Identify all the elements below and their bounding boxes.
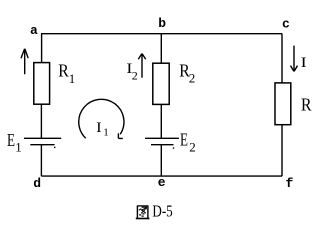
current arrow left branch <box>21 49 28 75</box>
wire b to R2 <box>160 34 162 63</box>
battery E1 <box>24 138 61 144</box>
wire bottom d-e-f <box>41 175 282 177</box>
svg-text:f: f <box>286 176 294 191</box>
resistor R2 <box>153 63 169 104</box>
wire R to f <box>281 125 283 176</box>
svg-text:E: E <box>7 130 15 150</box>
wire a to R1 <box>41 34 43 63</box>
svg-text:E: E <box>180 130 188 150</box>
wire c to R <box>281 34 283 83</box>
svg-text:2: 2 <box>132 68 138 82</box>
current arrow I2 <box>138 54 145 78</box>
svg-text:1: 1 <box>69 71 76 86</box>
wire E2 to e <box>160 145 162 177</box>
stray dot near E1 <box>54 146 55 148</box>
svg-text:1: 1 <box>15 140 22 155</box>
wire R2 to E2 <box>160 104 162 138</box>
svg-text:c: c <box>282 17 290 32</box>
svg-text:2: 2 <box>189 71 196 86</box>
svg-text:I: I <box>301 55 307 71</box>
svg-text:1: 1 <box>103 127 109 139</box>
resistor R1 <box>34 63 50 105</box>
svg-text:a: a <box>30 23 38 38</box>
svg-text:e: e <box>158 175 166 190</box>
wire R1 to E1 <box>40 104 42 138</box>
current arrow I <box>291 46 298 72</box>
svg-text:b: b <box>158 16 166 31</box>
battery E2 <box>145 138 179 144</box>
stray dot near E2 <box>173 147 174 149</box>
loop arrowhead <box>118 133 122 138</box>
wire E1 to d <box>40 145 42 177</box>
svg-text:R: R <box>301 95 312 115</box>
mesh current loop I1 <box>79 99 124 138</box>
svg-text:2: 2 <box>189 139 196 154</box>
svg-text:d: d <box>33 176 41 191</box>
wire top a-b-c <box>41 33 282 35</box>
caption glyph tu (figure) <box>137 206 148 219</box>
svg-text:D-5: D-5 <box>152 201 172 220</box>
svg-text:R: R <box>58 61 69 81</box>
svg-text:I: I <box>96 120 102 136</box>
resistor R <box>275 83 291 125</box>
